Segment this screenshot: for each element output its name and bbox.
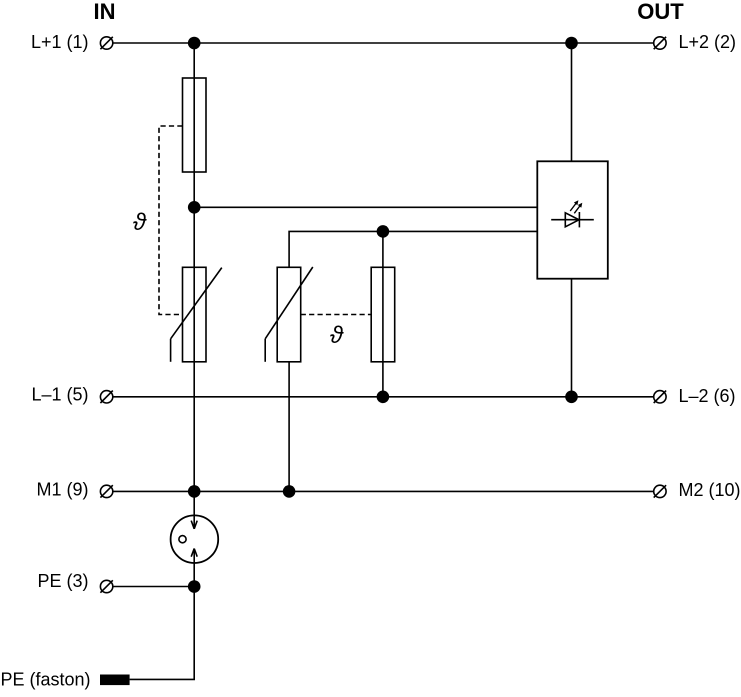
wire W2 from varistor V2 top to indicator box xyxy=(289,231,537,267)
svg-text:PE (faston): PE (faston) xyxy=(1,670,91,690)
PE faston tab xyxy=(100,675,130,686)
terminal L+2 (2) xyxy=(654,32,736,52)
terminal L+1 (1) xyxy=(31,32,113,52)
thermal disconnect dashed link (fuse) xyxy=(159,126,183,315)
wire net L+ top rail xyxy=(113,42,654,44)
status indicator U1 (LED) xyxy=(537,161,608,278)
isolating spark gap G2 xyxy=(171,515,219,586)
junction L+ / fuse column xyxy=(188,37,201,50)
junction L- / column C xyxy=(377,391,390,404)
svg-text:L+2 (2): L+2 (2) xyxy=(679,32,737,52)
junction PE / column A xyxy=(188,580,201,593)
wire column B (varistor V2 down to M rail) xyxy=(288,362,290,492)
svg-text:ϑ: ϑ xyxy=(133,209,147,236)
svg-text:M2 (10): M2 (10) xyxy=(679,480,741,500)
wire column A (L+1 down through fuse and varistor to spark gap) xyxy=(193,43,195,529)
svg-text:OUT: OUT xyxy=(637,0,684,24)
svg-text:L–1 (5): L–1 (5) xyxy=(31,385,88,405)
svg-text:L+1 (1): L+1 (1) xyxy=(31,32,89,52)
wire PE faston riser xyxy=(130,587,195,680)
wire net PE xyxy=(113,586,194,588)
gas discharge tube G1 xyxy=(371,267,395,362)
wire net L- rail xyxy=(113,396,654,398)
terminal L-2 (6) xyxy=(654,386,736,406)
junction column A / wire W1 xyxy=(188,201,201,214)
wire indicator bottom xyxy=(571,279,573,397)
svg-text:M1 (9): M1 (9) xyxy=(36,480,88,500)
junction L+ / indicator column xyxy=(565,37,578,50)
wire column C xyxy=(382,231,384,396)
junction L- / indicator column xyxy=(565,391,578,404)
terminal M2 (10) xyxy=(654,480,741,500)
thermal disconnect dashed link (varistor V2 / GDT) xyxy=(301,314,372,316)
wire net M rail xyxy=(113,490,654,492)
varistor V2 xyxy=(265,267,313,362)
terminal PE (3) xyxy=(37,571,112,593)
svg-text:PE (3): PE (3) xyxy=(37,571,88,591)
junction wire W2 / column C xyxy=(377,225,390,238)
svg-text:ϑ: ϑ xyxy=(330,322,344,349)
terminal M1 (9) xyxy=(36,480,112,500)
varistor V1 xyxy=(171,267,222,362)
svg-text:IN: IN xyxy=(94,0,116,24)
terminal L-1 (5) xyxy=(31,385,112,405)
junction M / column A xyxy=(188,485,201,498)
svg-text:L–2 (6): L–2 (6) xyxy=(679,386,736,406)
fuse F1 xyxy=(183,78,207,172)
junction M / column B xyxy=(283,485,296,498)
wire indicator top xyxy=(571,43,573,161)
wire W1 to indicator box xyxy=(194,206,537,208)
